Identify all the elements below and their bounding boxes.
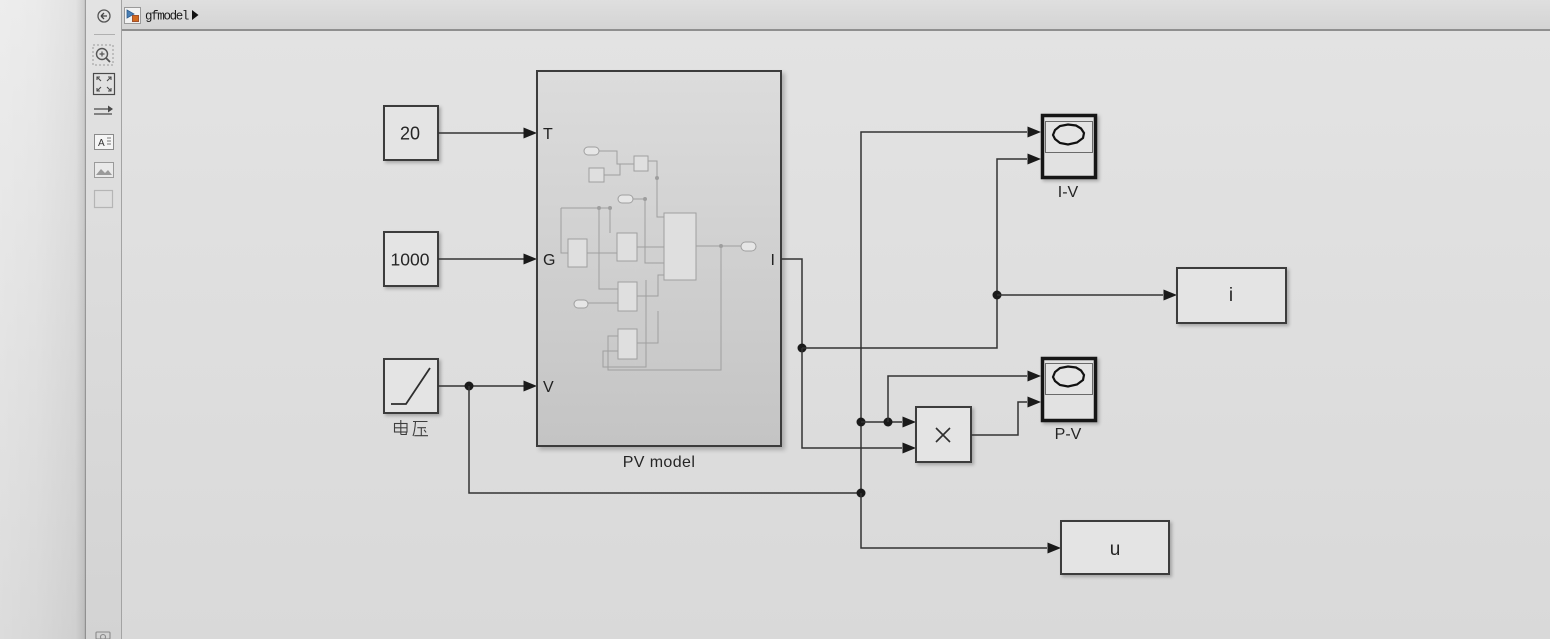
sidebar icon: fit to view (94, 74, 115, 95)
svg-text:u: u (1110, 539, 1121, 560)
sidebar icon: back button (98, 10, 110, 22)
wire I output down to bus (781, 259, 802, 348)
svg-text:A: A (98, 138, 105, 149)
sidebar separator (94, 34, 115, 36)
sidebar icon: signal lines (94, 106, 113, 115)
wire V branch down to bus (469, 386, 861, 493)
subsystem PV model (537, 71, 781, 446)
wire 20 -> T (438, 128, 537, 139)
junction node bus-corner (857, 489, 866, 498)
left window background panel (0, 0, 86, 639)
junction node V-branch (465, 382, 474, 391)
wire bus to product port1 (861, 421, 902, 423)
constant block 20 (384, 106, 438, 160)
junction node i-branch (993, 291, 1002, 300)
svg-text:I: I (771, 252, 775, 269)
svg-text:P-V: P-V (1055, 426, 1082, 443)
outport block u (1061, 521, 1169, 574)
svg-text:i: i (1229, 285, 1233, 306)
sidebar icon: annotation A (95, 135, 114, 150)
XY scope I-V (1043, 116, 1096, 178)
svg-text:I-V: I-V (1058, 184, 1079, 201)
wire to outport i (997, 294, 1163, 296)
breadcrumb tab bar (122, 0, 1550, 31)
svg-text:PV model: PV model (623, 454, 696, 471)
junction node I-bus (798, 344, 807, 353)
PV model thumbnail diagram (561, 147, 756, 370)
wire up to PV scope port1 (888, 376, 1027, 422)
sidebar icon: empty box (95, 191, 113, 208)
sidebar bottom camera icon (96, 632, 110, 639)
svg-text:gfmodel: gfmodel (145, 10, 189, 24)
constant block 1000 (384, 232, 438, 286)
wire ramp -> V with junction (438, 381, 537, 392)
label 电压 (395, 420, 429, 436)
XY scope P-V (1043, 359, 1096, 421)
junction node bus-product (857, 418, 866, 427)
svg-text:1000: 1000 (391, 250, 430, 270)
junction node PV-branch (884, 418, 893, 427)
ramp block 电压 (384, 359, 438, 413)
sidebar palette strip (86, 0, 122, 639)
svg-text:T: T (543, 126, 553, 143)
wire 1000 -> G (438, 254, 537, 265)
svg-text:V: V (543, 379, 554, 396)
svg-text:G: G (543, 252, 555, 269)
breadcrumb model icon (125, 8, 141, 24)
sidebar icon: zoom select (93, 45, 113, 65)
wire bus down to outport u (861, 493, 1047, 548)
breadcrumb arrow (192, 10, 199, 20)
wire I to IV scope port2 and i outport (802, 159, 1027, 348)
wire V bus up to IV scope port1 (861, 132, 1027, 493)
product block X (916, 407, 971, 462)
wire I down to product port2 (802, 348, 902, 448)
sidebar icon: image (95, 163, 114, 178)
outport block i (1177, 268, 1286, 323)
svg-text:20: 20 (400, 124, 420, 144)
wire product -> PV scope port2 (971, 402, 1027, 435)
